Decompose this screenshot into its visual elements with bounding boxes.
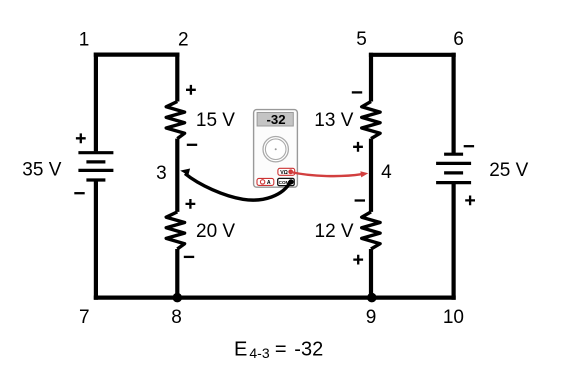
wire node 2 to resistor R1: [175, 53, 179, 102]
battery B2 minus polarity label: [464, 145, 474, 147]
resistor R4 minus polarity label: [355, 199, 365, 201]
svg-text:35 V: 35 V: [22, 159, 61, 180]
svg-text:4: 4: [381, 162, 392, 183]
wire node 5 to resistor R3: [369, 53, 373, 102]
svg-text:5: 5: [356, 29, 367, 50]
red test lead from V-ohm jack to node 4: [291, 171, 369, 177]
svg-text:E4-3=-32: E4-3=-32: [234, 338, 323, 361]
battery B2 plus polarity label: [465, 196, 475, 206]
resistor R2 minus polarity label: [184, 256, 194, 258]
multimeter M1 display reading -32: [257, 112, 293, 127]
wire resistor R3 to resistor R4 through node 4: [369, 139, 373, 212]
svg-text:-32: -32: [266, 112, 285, 127]
multimeter M1 V-ohm jack: [278, 168, 295, 176]
svg-text:20 V: 20 V: [196, 221, 235, 242]
svg-text:25 V: 25 V: [489, 160, 528, 181]
battery B2 (25 V): [436, 154, 471, 182]
wire resistor R1 to resistor R2 through node 3: [175, 139, 179, 212]
black test lead from COM jack to node 3: [180, 169, 291, 201]
battery B1 (35 V): [78, 153, 113, 180]
resistor R1 (15 V): [166, 102, 184, 139]
resistor R2 (20 V): [166, 212, 184, 249]
resistor R1 minus polarity label: [187, 144, 197, 146]
wire node 6 to battery B2: [452, 53, 456, 156]
battery B1 plus polarity label: [76, 133, 86, 143]
svg-text:VΩ: VΩ: [280, 170, 288, 176]
svg-text:3: 3: [156, 163, 167, 184]
svg-text:1: 1: [79, 30, 90, 51]
svg-text:15 V: 15 V: [196, 110, 235, 131]
multimeter M1 selector dial: [263, 137, 288, 162]
wire node 5 to node 6: [369, 53, 456, 57]
resistor R3 (13 V): [362, 102, 380, 139]
svg-text:12 V: 12 V: [315, 221, 354, 242]
svg-text:9: 9: [366, 307, 377, 328]
wire resistor R4 to node 9: [369, 249, 373, 298]
wire battery B1 to node 7: [94, 179, 98, 300]
node 9 junction dot: [367, 293, 377, 303]
svg-text:2: 2: [178, 30, 189, 51]
resistor R1 plus polarity label: [186, 85, 196, 95]
node 8 junction dot: [173, 293, 183, 303]
multimeter M1 A jack: [257, 178, 274, 186]
svg-text:13 V: 13 V: [314, 110, 353, 131]
svg-text:6: 6: [453, 29, 464, 50]
svg-text:8: 8: [171, 307, 182, 328]
svg-text:10: 10: [443, 307, 464, 328]
wire battery B2 to node 10: [452, 182, 456, 300]
multimeter M1 COM jack: [278, 178, 295, 185]
resistor R4 plus polarity label: [353, 255, 363, 265]
multimeter M1 body: [254, 110, 298, 188]
resistor R3 minus polarity label: [352, 91, 362, 93]
svg-text:7: 7: [79, 307, 90, 328]
svg-text:A: A: [267, 180, 271, 186]
battery B1 minus polarity label: [74, 192, 84, 194]
wire node 1 to node 2: [94, 52, 180, 56]
resistor R4 (12 V): [362, 212, 380, 249]
resistor R2 plus polarity label: [186, 199, 196, 209]
wire node 7 to node 10 bottom bus: [94, 296, 456, 300]
wire node 1 to battery B1: [94, 53, 98, 152]
wire resistor R2 to node 8: [175, 249, 179, 298]
resistor R3 plus polarity label: [353, 142, 363, 152]
